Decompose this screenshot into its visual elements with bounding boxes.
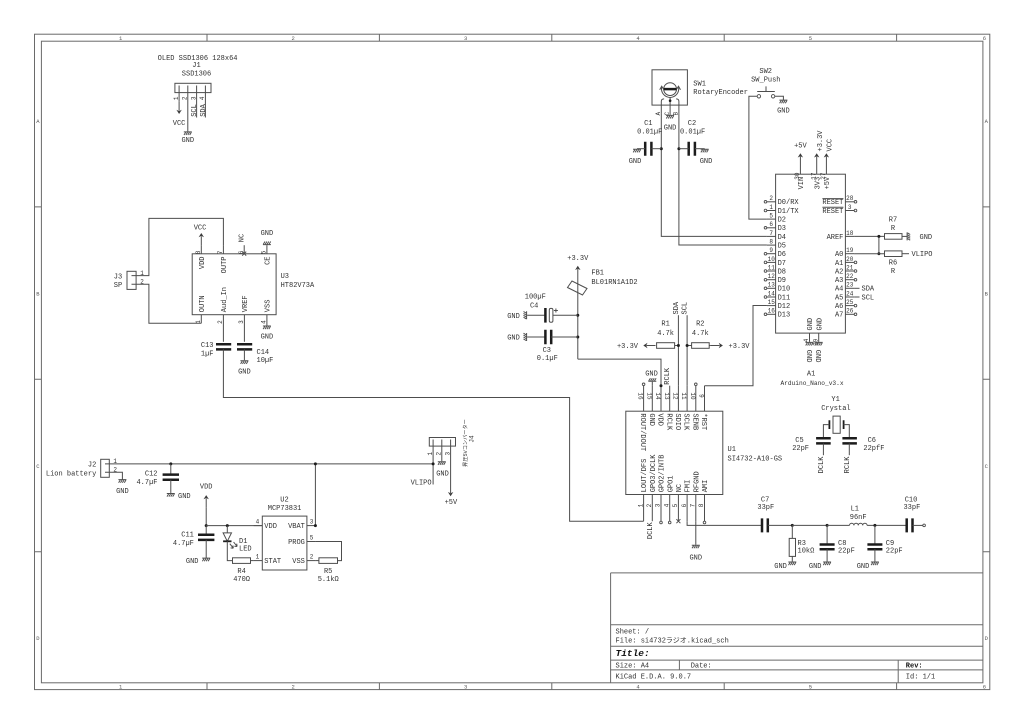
U1 pin 4 GPO1 (bottom) [669,495,671,522]
capacitor C6 [842,438,857,443]
svg-text:5: 5 [261,250,268,254]
svg-text:2: 2 [292,684,295,691]
svg-text:VLIPO: VLIPO [411,479,432,487]
svg-text:LOUT/DFS: LOUT/DFS [641,459,649,493]
svg-text:+5V: +5V [445,499,458,507]
svg-text:22pF: 22pF [792,445,809,453]
svg-text:SP: SP [114,282,122,290]
svg-text:Aud_In: Aud_In [221,287,229,312]
svg-text:R4: R4 [237,568,245,576]
svg-text:6: 6 [983,684,986,691]
svg-text:GND: GND [647,413,655,426]
svg-text:AREF: AREF [827,234,844,242]
svg-text:GND: GND [186,558,199,566]
svg-text:D0/RX: D0/RX [778,199,800,207]
svg-text:MCP73831: MCP73831 [268,505,302,513]
svg-text:0.1µF: 0.1µF [537,355,558,363]
svg-text:STAT: STAT [264,558,281,566]
svg-text:D5: D5 [778,243,786,251]
svg-text:3: 3 [464,35,467,42]
svg-text:4.7k: 4.7k [692,330,709,338]
wire RFGND pin7 to gnd [695,521,697,544]
svg-text:3: 3 [464,684,467,691]
svg-text:18: 18 [846,230,854,237]
svg-text:R: R [891,268,896,276]
wire A0 to R6 [854,253,884,255]
capacitor C12 [170,464,172,475]
svg-text:4: 4 [261,320,268,324]
svg-text:3: 3 [848,204,852,211]
svg-text:11: 11 [768,264,776,271]
svg-text:23: 23 [846,282,854,289]
svg-text:16: 16 [768,308,776,315]
U1 pin 6 FMI (bottom) [686,495,688,522]
wire SW2 left to D2 [749,96,767,219]
capacitor C7 [762,518,768,532]
U2 pin 5 PROG [307,541,316,543]
svg-text:CE: CE [265,257,273,265]
ground at C1 left [633,149,641,153]
svg-text:RCLK: RCLK [844,456,852,474]
svg-text:R1: R1 [661,321,669,329]
resistor R7 [885,234,903,240]
svg-text:DCLK: DCLK [647,522,655,540]
svg-text:7: 7 [690,503,697,507]
U1 pin 16 ROUT/DOUT (top) [643,386,645,412]
A1 pin 23 A4 [845,287,854,289]
svg-text:R5: R5 [324,568,332,576]
A1 pin 15 D12 [767,305,776,307]
svg-text:RCLK: RCLK [664,367,672,385]
svg-text:25: 25 [846,299,854,306]
ground at C4 (rotated) [524,311,528,319]
wire C8 node to L1 [827,524,849,526]
svg-text:5: 5 [809,35,812,42]
svg-text:SW_Push: SW_Push [751,76,780,84]
capacitor C3 [527,336,545,338]
A1 pin 11 D8 [767,270,776,272]
svg-text:+5V: +5V [824,176,832,189]
U3 pin 1 OUTN [200,315,202,324]
junction C1/A [660,147,663,150]
SW1 pin C [669,105,671,115]
svg-text:33pF: 33pF [757,504,774,512]
wire J2 pin2 to gnd [109,472,122,479]
svg-text:SCLK: SCLK [682,413,690,431]
A1 pin 25 A6 [845,305,854,307]
nc circle U1 pin8 [703,521,706,524]
wire Y1 left to C5 [823,425,829,439]
capacitor C8 [826,525,828,544]
J1 pin 1 [178,86,180,102]
svg-text:GND: GND [774,563,787,571]
svg-text:3: 3 [238,320,245,324]
svg-text:22pF: 22pF [886,547,903,555]
A1 pin 13 D10 [767,287,776,289]
A1 pin 29 GND [818,333,820,342]
svg-text:A0: A0 [835,251,843,259]
SW1 arc arrowheads [660,86,681,90]
svg-text:8: 8 [769,239,773,246]
U1 pin 13 RCLK (top) [669,386,671,412]
svg-text:470Ω: 470Ω [233,576,250,584]
svg-text:A6: A6 [835,303,843,311]
ground at U3 pin5 (flipped up) [263,242,271,246]
U1 pin 2 GPO3/DCLK (bottom) [651,495,653,522]
svg-text:GND: GND [178,493,191,501]
svg-text:10: 10 [768,256,776,263]
A1 pin 8 D5 [767,244,776,246]
svg-text:D: D [985,635,989,642]
wire FMI pin6 to filter [687,521,762,525]
power +5V at J4 pin3 (arrow down) [448,484,453,496]
svg-text:SSD1306: SSD1306 [182,71,211,79]
power VDD arrow [204,495,209,507]
ground at C2 right [701,149,709,153]
svg-text:File: si4732ラジオ.kicad_sch: File: si4732ラジオ.kicad_sch [616,636,729,645]
svg-text:SI4732-A10-GS: SI4732-A10-GS [728,455,783,463]
nc circle U1 pin3 [660,521,663,524]
A1 pin 4 GND [809,333,811,342]
power +3.3V right of R2 [709,345,711,347]
svg-text:2: 2 [217,320,224,324]
wire VDD node to U2 VDD [206,525,262,527]
svg-text:21: 21 [846,264,854,271]
svg-text:VCC: VCC [194,224,207,232]
svg-text:C3: C3 [543,347,551,355]
no-connect x at U1 pin5 [676,519,680,523]
U3 pin 8 VDD [200,245,202,254]
SW1 knob circle [664,83,677,96]
svg-text:GND: GND [645,370,658,378]
svg-text:U3: U3 [281,273,289,281]
svg-text:R7: R7 [889,217,897,225]
wire R3 node to C8 node [792,524,827,526]
svg-text:4.7µF: 4.7µF [136,479,157,487]
svg-text:A: A [36,118,40,125]
svg-text:2: 2 [436,452,443,456]
svg-text:4: 4 [256,519,260,526]
A1 pin 10 D7 [767,261,776,263]
ground at SW2 [779,100,787,104]
svg-text:13: 13 [663,392,670,400]
svg-text:5.1kΩ: 5.1kΩ [318,576,339,584]
svg-text:+5V: +5V [794,143,807,151]
svg-text:B: B [985,290,989,297]
svg-text:15: 15 [645,392,652,400]
svg-text:GND: GND [436,471,449,479]
svg-text:C4: C4 [530,302,538,310]
svg-text:1: 1 [427,452,434,456]
svg-text:NC: NC [676,484,684,492]
svg-text:9: 9 [698,394,705,398]
wire SW2 right to gnd [775,96,784,99]
svg-text:RFGND: RFGND [693,471,701,492]
svg-text:D8: D8 [778,268,786,276]
wire OUTN to J3 pin2 [136,284,201,323]
svg-text:28: 28 [846,195,854,202]
svg-text:GND: GND [261,334,274,342]
wire PROG loop to R5 [316,542,342,561]
inductor L1 [850,523,868,525]
J1 pin 3 [196,86,198,118]
resistor R5 [319,558,338,564]
frame column ticks bottom [207,683,897,690]
A1 pin 26 A7 [845,313,854,315]
ground below R3 [788,561,796,565]
junction C4 tap [576,314,579,317]
svg-text:GPO3/DCLK: GPO3/DCLK [650,454,658,493]
svg-text:33pF: 33pF [903,504,920,512]
svg-text:RESET: RESET [822,199,843,207]
J4 pin 3 [450,440,452,485]
nc circle U1 pin16 [642,383,645,386]
svg-text:96nF: 96nF [850,514,867,522]
svg-text:GND: GND [777,107,790,115]
svg-text:2: 2 [769,195,773,202]
svg-text:GND: GND [813,350,821,363]
J1 pin 2 [187,86,189,132]
svg-text:VCC: VCC [827,139,835,152]
svg-text:SW2: SW2 [759,68,772,76]
svg-text:D2: D2 [778,217,786,225]
svg-text:7: 7 [769,230,773,237]
svg-text:C2: C2 [688,120,696,128]
svg-text:22pF: 22pF [838,547,855,555]
svg-text:J1: J1 [192,62,200,70]
svg-text:A2: A2 [835,268,843,276]
svg-text:5: 5 [809,684,812,691]
svg-text:C11: C11 [181,531,194,539]
svg-text:GPO1: GPO1 [667,475,675,492]
ground at U3 pin4 [263,325,271,329]
svg-text:Crystal: Crystal [821,405,850,413]
svg-text:VSS: VSS [292,558,305,566]
svg-text:C: C [36,463,40,470]
svg-text:GND: GND [181,137,194,145]
junction C3 tap [576,336,579,339]
junction VDD node [205,524,208,527]
svg-text:D7: D7 [778,260,786,268]
wire VBAT to rail [314,464,316,526]
svg-text:100µF: 100µF [525,294,546,302]
svg-text:15: 15 [768,299,776,306]
svg-text:C12: C12 [145,471,158,479]
SW2 contact circles [757,95,760,98]
op-amp U3 body [192,254,276,315]
U1 pin 8 AMI (bottom) [704,495,706,522]
A1 pin 9 D6 [767,253,776,255]
connector J2 body [101,459,110,477]
LED D1 [226,526,228,533]
svg-text:FMI: FMI [685,480,693,493]
power VCC at +5V pin (rotated label) [824,153,829,165]
svg-text:Id: 1/1: Id: 1/1 [906,674,935,682]
SW1 rotation arc [662,87,679,97]
wire R7 branch to A0 [878,236,880,253]
U1 pin 15 GND (top) [651,386,653,412]
svg-text:GND: GND [809,563,822,571]
svg-text:22pfF: 22pfF [863,445,884,453]
svg-text:VDD: VDD [656,413,664,426]
svg-text:C1: C1 [644,120,652,128]
A1 pin 14 D11 [767,296,776,298]
U3 pin 3 VREF [243,315,245,342]
svg-text:VIN: VIN [798,177,806,190]
U3 pin 5 CE [266,245,268,254]
J1 pin 4 [204,86,206,118]
A1 pin 3 RESET [845,210,854,212]
U1 pin 9 *RST (top) [704,386,706,412]
nc circle U1 pin4 [668,521,671,524]
resistor R1 [657,343,675,349]
Y1 electrode plates [829,420,843,429]
U1 pin 5 NC (bottom) [677,495,679,522]
svg-text:1: 1 [256,554,260,561]
junction D1 tap [226,524,229,527]
svg-text:LED: LED [239,546,252,554]
svg-text:D11: D11 [778,294,791,302]
svg-text:U1: U1 [728,446,736,454]
svg-text:RESET: RESET [822,208,843,216]
svg-text:A5: A5 [835,294,843,302]
capacitor C1 [645,142,651,156]
ground at J2 pin2 [118,479,126,483]
svg-text:GND: GND [238,369,251,377]
svg-text:+3.3V: +3.3V [729,343,751,351]
A1 pin 20 A1 [845,261,854,263]
svg-text:GND: GND [700,158,713,166]
svg-text:ROUT/DOUT: ROUT/DOUT [638,413,646,451]
svg-text:5: 5 [672,503,679,507]
power +3.3V at 3V3 (rotated label) [814,153,819,165]
wire U1 VDD pin14 to FB1 node [578,359,661,386]
A1 pin 7 D4 [767,235,776,237]
svg-text:VLIPO: VLIPO [912,251,933,259]
IC U1 SI4732 body [626,411,723,494]
svg-text:+3.3V: +3.3V [567,255,589,263]
resistor R4 [233,558,251,564]
svg-text:8: 8 [195,250,202,254]
SW1 pin B [678,105,680,113]
U2 pin 2 VSS [307,560,316,562]
wire C10 to open end [913,524,923,526]
svg-text:RCLK: RCLK [664,413,672,431]
svg-text:A1: A1 [807,371,815,379]
A1 pin 30 VIN [799,166,801,175]
svg-text:6: 6 [681,503,688,507]
A1 pin 22 A3 [845,279,854,281]
svg-text:A4: A4 [835,286,843,294]
IC A1 Arduino body [776,174,846,333]
svg-text:C6: C6 [868,437,876,445]
svg-text:4: 4 [199,96,206,100]
svg-text:22: 22 [846,273,854,280]
U3 pin 7 OUTP [222,245,224,254]
svg-text:GND: GND [920,234,933,242]
wire battery rail [109,463,433,465]
svg-text:VDD: VDD [264,523,277,531]
junction J4 pin1 / rail [432,462,435,465]
svg-text:26: 26 [846,308,854,315]
svg-text:Date:: Date: [691,663,712,671]
U1 pin 7 RFGND (bottom) [695,495,697,522]
svg-text:B: B [36,290,40,297]
svg-text:J4: J4 [468,435,475,443]
svg-text:Lion battery: Lion battery [46,470,96,478]
svg-text:1: 1 [769,204,773,211]
SW1 pin A [660,105,662,113]
svg-text:2: 2 [182,96,189,100]
svg-text:Arduino_Nano_v3.x: Arduino_Nano_v3.x [780,380,843,387]
svg-text:Size: A4: Size: A4 [616,663,650,671]
svg-text:Sheet: /: Sheet: / [616,629,650,637]
svg-text:PROG: PROG [288,539,305,547]
svg-text:J3: J3 [114,273,122,281]
svg-text:VDD: VDD [199,257,207,270]
svg-text:3: 3 [444,452,451,456]
svg-text:D10: D10 [778,286,791,294]
A1 pin 19 A0 [845,253,854,255]
wire C7 to R3 node [768,524,793,526]
svg-text:SDA: SDA [200,103,208,116]
ground below C9 [871,561,879,565]
svg-text:SDA: SDA [673,301,681,314]
ground at U1 pin15 [651,382,653,386]
svg-text:VDD: VDD [200,484,213,492]
resistor R2 [687,345,692,347]
junction C12 tap [169,462,172,465]
svg-text:A1: A1 [835,260,843,268]
svg-text:D4: D4 [778,234,786,242]
svg-text:D6: D6 [778,251,786,259]
svg-text:C13: C13 [201,342,214,350]
ground at SW1 pin C [666,115,674,119]
wire +3.3V through FB1 down [577,278,579,359]
svg-text:2: 2 [292,35,295,42]
svg-text:+3.3V: +3.3V [817,130,825,152]
wire AREF to R7 [854,235,884,237]
wire SW1 B down to C2 junction then D5 [679,113,767,245]
svg-text:3: 3 [190,96,197,100]
connector J4 body [429,438,455,447]
svg-text:0.01µF: 0.01µF [637,129,662,137]
connector J1 body [175,83,211,92]
svg-text:4: 4 [803,338,810,342]
svg-text:SDA: SDA [862,286,875,294]
svg-text:9: 9 [769,247,773,254]
svg-text:KiCad E.D.A. 9.0.7: KiCad E.D.A. 9.0.7 [616,674,692,682]
svg-text:Title:: Title: [616,648,650,659]
ground below C11 [202,558,210,562]
A1 pin 28 RESET [845,201,854,203]
U3 pin 2 Aud_In [222,315,224,342]
svg-text:R: R [891,225,896,233]
wire SCL U1 pin11 to R2 [686,315,688,386]
svg-text:12: 12 [768,273,776,280]
svg-text:A7: A7 [835,312,843,320]
no-connect x at U3 pin6 [242,252,246,256]
SW1 knob slot bar [664,88,677,91]
svg-text:GND: GND [807,318,815,331]
nc circle U1 pin10 [695,383,698,386]
svg-text:20: 20 [846,256,854,263]
svg-text:OUTN: OUTN [199,295,207,312]
ferrite bead FB1 [568,281,588,295]
A1 pin 12 D9 [767,279,776,281]
A1 pin 17 3V3 [816,166,818,175]
svg-text:14: 14 [768,290,776,297]
